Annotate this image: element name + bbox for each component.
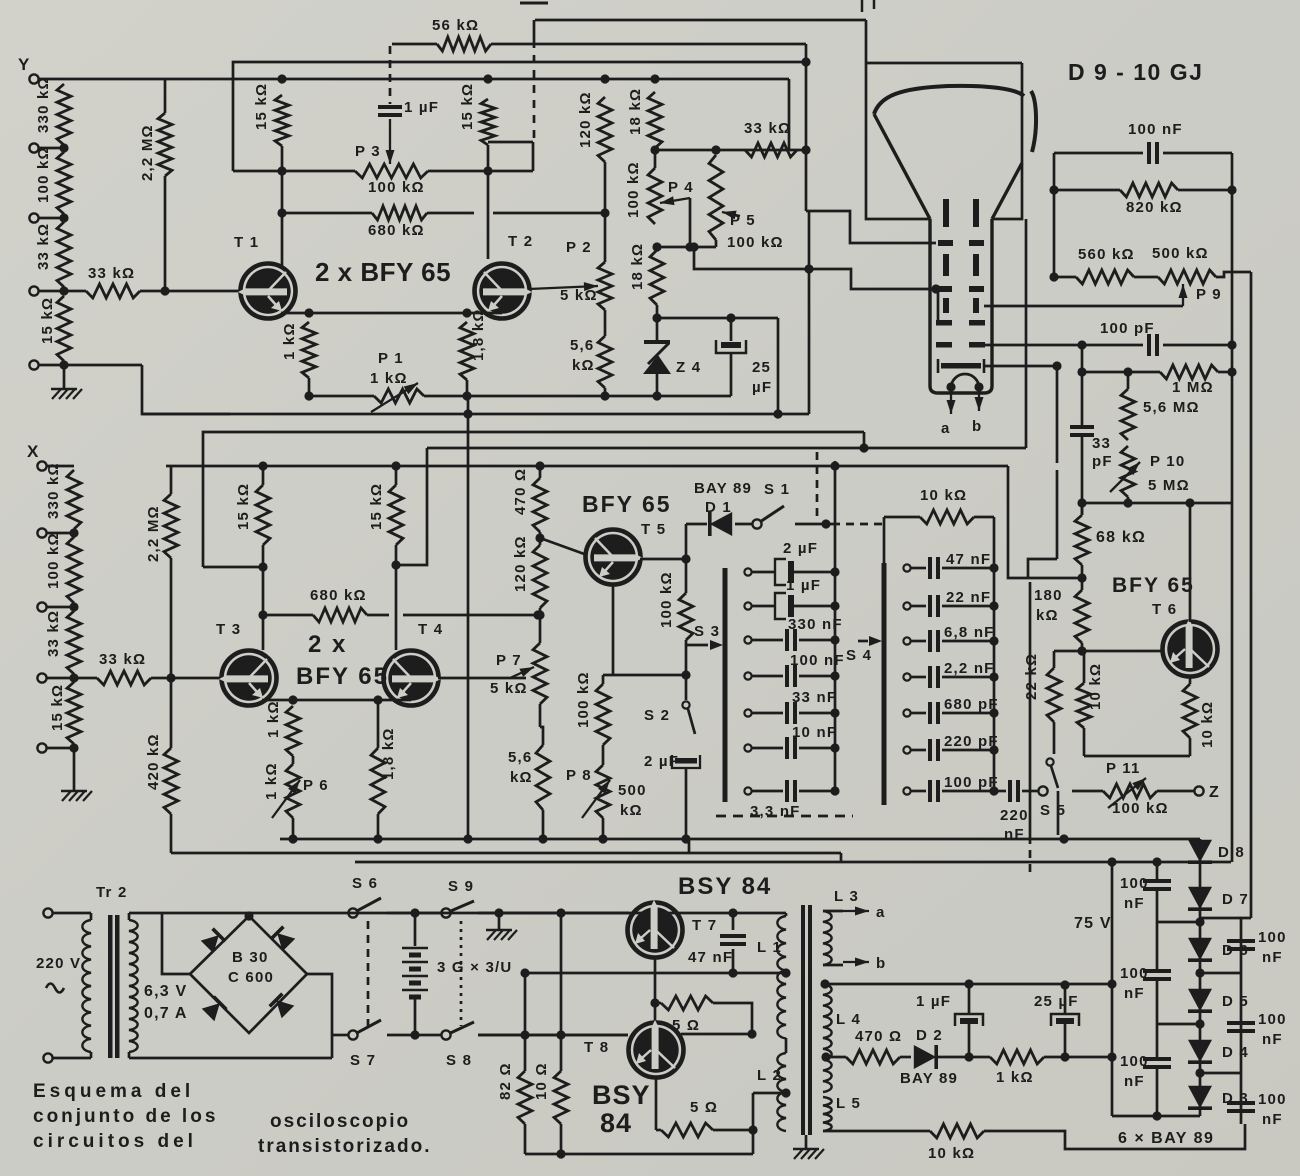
wire T6 base xyxy=(1054,650,1163,653)
wire 470 to D2 xyxy=(900,1056,911,1059)
svg-text:1 µF: 1 µF xyxy=(786,577,821,594)
potentiometer P10 5M xyxy=(1121,446,1135,497)
wire T8 base row xyxy=(478,1034,628,1037)
stub chain L2 xyxy=(1157,1023,1200,1026)
resistor 1.8k X xyxy=(377,700,380,748)
wire secondary bottom rail xyxy=(129,1057,332,1060)
switch S9 xyxy=(441,908,450,917)
potentiometer P9 500k xyxy=(1134,276,1158,279)
CRT electrode a2 left xyxy=(943,254,949,276)
bus A y414 xyxy=(142,413,809,416)
bus B y432 xyxy=(203,432,864,567)
svg-text:560 kΩ: 560 kΩ xyxy=(1078,246,1135,263)
svg-text:P 2: P 2 xyxy=(566,239,592,256)
resistor 18k lower xyxy=(650,250,664,305)
junction 82ohm y973 xyxy=(520,968,529,977)
junction 47nF top xyxy=(728,908,737,917)
wire riser x533 xyxy=(532,142,535,171)
wire L2 tap riser xyxy=(752,1093,755,1154)
bus emitter returns y839 xyxy=(280,838,689,841)
arrow P6 wiper xyxy=(272,780,300,818)
junction X div 2 xyxy=(69,602,78,611)
svg-text:D 7: D 7 xyxy=(1222,891,1249,908)
svg-text:nF: nF xyxy=(1124,985,1145,1002)
svg-text:10 kΩ: 10 kΩ xyxy=(928,1145,975,1162)
junction 470 bottom T5 base xyxy=(535,533,544,542)
svg-text:470 Ω: 470 Ω xyxy=(855,1028,902,1045)
svg-text:100: 100 xyxy=(1120,965,1149,982)
wire 33k row xyxy=(654,148,657,150)
junction X div 3 xyxy=(69,673,78,682)
junction gnd stub xyxy=(494,908,503,917)
resistor 560k xyxy=(1054,276,1076,279)
svg-text:1 kΩ: 1 kΩ xyxy=(263,762,280,800)
svg-text:2 x: 2 x xyxy=(308,631,347,658)
svg-text:P 11: P 11 xyxy=(1106,760,1141,777)
junction rail 15k4 xyxy=(391,461,400,470)
svg-text:25 µF: 25 µF xyxy=(1034,993,1079,1010)
svg-text:BSY: BSY xyxy=(592,1080,651,1110)
svg-text:56 kΩ: 56 kΩ xyxy=(432,17,479,34)
svg-text:T 7: T 7 xyxy=(692,917,717,934)
resistor 10k T6 emitter xyxy=(1189,676,1192,684)
wire secondary top to rail xyxy=(129,912,629,915)
svg-text:BAY 89: BAY 89 xyxy=(900,1070,958,1087)
stub chain R1 xyxy=(1200,972,1241,975)
wire 10k down xyxy=(1083,728,1086,756)
wire bridge left feed xyxy=(162,913,190,974)
capacitor 2uF S2 xyxy=(675,758,697,764)
wire mains bottom xyxy=(53,1057,92,1060)
svg-text:2 µF: 2 µF xyxy=(783,540,818,557)
svg-text:S 6: S 6 xyxy=(352,875,378,892)
svg-text:S 4: S 4 xyxy=(846,647,872,664)
junction 75V y1057 xyxy=(1107,1052,1116,1061)
diode D1 BAY89 xyxy=(710,512,732,536)
bus C y448 xyxy=(427,447,1026,450)
wire chain left column xyxy=(1156,862,1159,879)
capacitor 33pF xyxy=(1070,425,1094,429)
S3 contact row3 xyxy=(744,636,751,643)
resistor 2.2M X xyxy=(170,466,173,494)
junction 680kX right xyxy=(533,610,542,619)
junction T2 collector node xyxy=(483,166,492,175)
inductor L4 xyxy=(823,984,832,1092)
svg-text:22 kΩ: 22 kΩ xyxy=(1023,653,1040,700)
svg-text:D 2: D 2 xyxy=(916,1027,943,1044)
resistor 1k X emitter xyxy=(286,706,300,756)
wire S6 right xyxy=(387,912,441,915)
svg-text:D 9 - 10 GJ: D 9 - 10 GJ xyxy=(1068,59,1203,85)
selector S3 bar xyxy=(723,568,728,802)
capacitor 3.3nF xyxy=(752,790,783,793)
wire chain right column xyxy=(1241,918,1251,1124)
junction S3 row6 xyxy=(830,743,839,752)
CRT electrode a2 right xyxy=(973,254,979,276)
svg-text:Z 4: Z 4 xyxy=(676,359,701,376)
junction 68k 180k node xyxy=(1077,573,1086,582)
switch S1 xyxy=(752,519,761,528)
ground converter xyxy=(794,1149,803,1159)
wire T4 collector down xyxy=(395,565,398,650)
potentiometer P2 5k xyxy=(598,262,612,310)
stub chain R2 xyxy=(1200,1072,1241,1075)
capacitor 25uF supply xyxy=(1064,985,1067,1013)
junction x468 bus xyxy=(463,834,472,843)
svg-text:10 kΩ: 10 kΩ xyxy=(1087,663,1104,710)
junction S2 bus xyxy=(681,834,690,843)
wire dashed riser x817 xyxy=(816,452,819,518)
wire dashed T2 node to top wire xyxy=(533,20,536,40)
wire x174 from 420k xyxy=(171,852,174,855)
svg-text:33 kΩ: 33 kΩ xyxy=(99,651,146,668)
switch S5 xyxy=(1046,758,1053,765)
svg-text:1 kΩ: 1 kΩ xyxy=(996,1069,1034,1086)
junction y345 x1082 xyxy=(1077,340,1086,349)
wire X stub 4 xyxy=(47,677,75,680)
svg-text:500: 500 xyxy=(618,782,647,799)
CRT electrode g5 right xyxy=(969,342,985,348)
wire T7 emitter xyxy=(654,957,657,1022)
wire divider bottom down xyxy=(63,365,66,388)
junction T4 collector xyxy=(391,560,400,569)
wire 1k right xyxy=(1044,1056,1112,1059)
junction w2 crossing xyxy=(804,264,813,273)
arrow P5 wiper xyxy=(722,212,740,216)
wire T6 emitter bottom xyxy=(1189,738,1192,756)
svg-text:D 1: D 1 xyxy=(705,499,732,516)
svg-text:Tr 2: Tr 2 xyxy=(96,884,127,901)
junction chain left col bottom xyxy=(1152,1111,1161,1120)
svg-text:6,8 nF: 6,8 nF xyxy=(944,624,995,641)
svg-text:820 kΩ: 820 kΩ xyxy=(1126,199,1183,216)
CRT electrode a3 left xyxy=(937,286,952,292)
svg-text:18 kΩ: 18 kΩ xyxy=(629,243,646,290)
junction 15k2 top xyxy=(483,74,492,83)
wire S1 fixed contact xyxy=(795,523,832,526)
wire row to right vertical xyxy=(1190,502,1231,505)
resistor 33k Y series input xyxy=(68,290,86,293)
wire 15k2 link xyxy=(488,141,533,144)
svg-text:D 4: D 4 xyxy=(1222,1044,1249,1061)
svg-text:P 1: P 1 xyxy=(378,350,404,367)
svg-text:680 kΩ: 680 kΩ xyxy=(310,587,367,604)
svg-text:10 Ω: 10 Ω xyxy=(533,1062,550,1100)
wire D1 to S1 xyxy=(735,523,752,526)
terminal Y tap 3 xyxy=(29,213,38,222)
junction plate a3 xyxy=(931,284,940,293)
resistor 10k T5 side xyxy=(1083,651,1086,683)
junction 100k bottom node xyxy=(681,670,690,679)
wire 1.8k bottom xyxy=(466,380,469,396)
CRT enclosure box xyxy=(866,20,930,219)
junction 18k2 top xyxy=(652,242,661,251)
junction T3 collector box xyxy=(258,562,267,571)
potentiometer P7 5k xyxy=(533,643,547,704)
svg-text:33 kΩ: 33 kΩ xyxy=(88,265,135,282)
wire D2 row xyxy=(823,1056,846,1059)
capacitor 100nF bank xyxy=(752,675,783,678)
ground Y divider xyxy=(52,389,61,399)
junction bridge top rail xyxy=(244,911,253,920)
svg-text:T 5: T 5 xyxy=(641,521,666,538)
capacitor 47nF bank xyxy=(911,567,926,570)
svg-text:1 MΩ: 1 MΩ xyxy=(1172,379,1214,396)
CRT deflection plate right xyxy=(973,298,979,313)
svg-text:84: 84 xyxy=(600,1108,632,1138)
transformer secondary coil xyxy=(128,913,131,920)
wire X stub 3 xyxy=(47,606,75,609)
wire T5 emitter down xyxy=(612,584,615,675)
CRT box right xyxy=(992,63,1022,219)
svg-text:5 MΩ: 5 MΩ xyxy=(1148,477,1190,494)
switch S8 xyxy=(441,1030,450,1039)
arrow S4 wiper xyxy=(858,640,868,643)
wire T1 collector xyxy=(281,171,284,268)
capacitor 100nF chain L1 xyxy=(1143,879,1171,883)
junction 68k top xyxy=(1077,498,1086,507)
junction 82ohm base xyxy=(520,1030,529,1039)
junction box busA xyxy=(773,409,782,418)
svg-text:1 kΩ: 1 kΩ xyxy=(281,322,298,360)
resistor 33k X divider xyxy=(67,611,81,674)
resistor 330k Y divider xyxy=(57,84,71,145)
wire CRT anode right y366 xyxy=(984,365,1057,368)
svg-text:BAY 89: BAY 89 xyxy=(694,480,752,497)
inductor L5 xyxy=(823,1097,832,1131)
junction 1M right xyxy=(1227,367,1236,376)
junction 5ohm L4 xyxy=(747,1029,756,1038)
wire 10k bottom right xyxy=(984,1124,1245,1149)
wire X divider to ground xyxy=(73,748,76,790)
wire CRT plate right y345 xyxy=(984,344,1082,347)
terminal X tap3 xyxy=(37,602,46,611)
junction 1k top xyxy=(304,308,313,317)
junction right 820k xyxy=(1227,185,1236,194)
transformer core xyxy=(108,915,113,1058)
selector S4 bar xyxy=(882,563,887,805)
wire 100k to P8 xyxy=(602,745,605,765)
wire T4 collector to busC xyxy=(396,448,427,565)
resistor 33k X series xyxy=(78,677,97,680)
svg-text:S 1: S 1 xyxy=(764,481,790,498)
svg-text:L 1: L 1 xyxy=(757,939,782,956)
resistor 5.6k Y xyxy=(598,336,612,388)
svg-text:nF: nF xyxy=(1262,1031,1283,1048)
svg-text:5,6: 5,6 xyxy=(570,337,594,354)
CRT deflection plate left xyxy=(943,298,949,313)
junction 1uF bottom xyxy=(964,1052,973,1061)
wire tap2 stub xyxy=(39,147,65,150)
wire P4 wiper to node B xyxy=(689,198,692,247)
svg-text:b: b xyxy=(972,418,982,435)
arrow CRT heater a xyxy=(950,387,952,414)
junction filament b xyxy=(974,382,983,391)
potentiometer P11 100k xyxy=(1072,790,1103,793)
terminal Y bottom xyxy=(29,360,38,369)
svg-text:a: a xyxy=(876,904,886,921)
svg-text:S 7: S 7 xyxy=(350,1052,376,1069)
potentiometer P3 100k xyxy=(355,164,428,178)
junction P6 bus xyxy=(288,834,297,843)
junction 5ohm T8 x753 xyxy=(748,1125,757,1134)
wire 75V vertical xyxy=(1111,862,1114,1116)
svg-text:Z: Z xyxy=(1209,784,1220,801)
svg-text:47 nF: 47 nF xyxy=(688,949,733,966)
wire P9 right jog xyxy=(1216,272,1251,277)
wire L2 tap xyxy=(753,1092,786,1095)
arrow P9 wiper xyxy=(1182,284,1184,306)
svg-text:33 kΩ: 33 kΩ xyxy=(744,120,791,137)
svg-text:100 pF: 100 pF xyxy=(1100,320,1155,337)
svg-text:X: X xyxy=(27,442,40,461)
CRT electrode a1 left xyxy=(938,240,953,246)
svg-text:5,6: 5,6 xyxy=(508,749,532,766)
junction S3 row7 xyxy=(830,786,839,795)
svg-text:5 Ω: 5 Ω xyxy=(690,1099,718,1116)
wire 33k to T1 base xyxy=(140,290,241,293)
svg-text:T 2: T 2 xyxy=(508,233,533,250)
junction S3 row4 xyxy=(830,671,839,680)
wire right vertical top net xyxy=(1231,153,1234,190)
wire P11 to Z xyxy=(1157,790,1194,793)
svg-text:15 kΩ: 15 kΩ xyxy=(253,83,270,130)
wire CRT box right down to busC xyxy=(1025,219,1028,448)
svg-text:15 kΩ: 15 kΩ xyxy=(459,83,476,130)
resistor 1M xyxy=(1082,371,1160,374)
svg-text:pF: pF xyxy=(1092,453,1113,470)
svg-text:10 kΩ: 10 kΩ xyxy=(920,487,967,504)
diode D6 xyxy=(1188,938,1212,960)
wire X emitter row xyxy=(262,699,411,702)
capacitor 22nF xyxy=(911,605,926,608)
wire emitter row T1-T2 xyxy=(281,312,502,315)
svg-text:330 kΩ: 330 kΩ xyxy=(45,462,62,519)
junction 100pF right xyxy=(1227,340,1236,349)
junction S3 row2 xyxy=(830,601,839,610)
wire 68k top row xyxy=(1082,502,1190,505)
S3 contact row7 xyxy=(744,787,751,794)
capacitor 100nF chain R1 xyxy=(1227,939,1255,943)
svg-text:500 kΩ: 500 kΩ xyxy=(1152,245,1209,262)
transformer core converter xyxy=(801,905,805,1135)
wire x806 main vertical xyxy=(805,44,808,211)
svg-text:470 Ω: 470 Ω xyxy=(512,468,529,515)
wire bottom stub xyxy=(39,364,65,367)
arrow P2 wiper from T2 xyxy=(529,286,598,289)
terminal Y tap 2 xyxy=(29,143,38,152)
junction 560k left xyxy=(1049,272,1058,281)
wire chain bottom row xyxy=(1112,1115,1200,1118)
junction S4 row4 xyxy=(989,672,998,681)
wire 10ohm top xyxy=(560,913,563,1071)
svg-text:100 kΩ: 100 kΩ xyxy=(625,161,642,218)
junction 75V y984 xyxy=(1107,979,1116,988)
transistor T4 BFY65 xyxy=(384,651,442,706)
svg-text:S 5: S 5 xyxy=(1040,802,1066,819)
capacitor 10nF xyxy=(752,747,783,750)
junction 75V bus xyxy=(1107,857,1116,866)
svg-text:kΩ: kΩ xyxy=(510,769,533,786)
junction S4 row1 xyxy=(989,563,998,572)
wire T8 emitter xyxy=(655,1078,658,1130)
page artifact top 2 xyxy=(861,0,864,12)
svg-text:b: b xyxy=(876,955,886,972)
CRT electrode g1 left xyxy=(943,199,949,227)
junction X base node xyxy=(166,673,175,682)
wire chain L col mid2 xyxy=(1156,981,1159,1057)
svg-text:33 kΩ: 33 kΩ xyxy=(35,223,52,270)
svg-text:120 kΩ: 120 kΩ xyxy=(512,535,529,592)
svg-text:100 kΩ: 100 kΩ xyxy=(368,179,425,196)
junction 25uF top xyxy=(1060,980,1069,989)
junction S3 row3 xyxy=(830,635,839,644)
diode D3 xyxy=(1188,1086,1212,1108)
resistor 1k Y emitter xyxy=(302,322,316,378)
svg-text:kΩ: kΩ xyxy=(620,802,643,819)
capacitor 1uF bank xyxy=(752,605,775,608)
svg-text:100 kΩ: 100 kΩ xyxy=(35,146,52,203)
wire chain diode column xyxy=(1199,839,1202,1116)
wire T5 output right xyxy=(640,558,686,561)
junction divider 3 xyxy=(59,286,68,295)
svg-text:100 kΩ: 100 kΩ xyxy=(658,571,675,628)
bridge B30 C600 diamond xyxy=(190,916,307,1033)
junction left 820k xyxy=(1049,185,1058,194)
svg-text:P 10: P 10 xyxy=(1150,453,1185,470)
dashed frame S3 xyxy=(716,815,853,818)
svg-text:33 nF: 33 nF xyxy=(792,689,837,706)
junction 5.6M top xyxy=(1123,367,1132,376)
svg-text:P 8: P 8 xyxy=(566,767,592,784)
svg-text:2,2 MΩ: 2,2 MΩ xyxy=(139,124,156,181)
junction chain bus xyxy=(1152,857,1161,866)
arrow S3 wiper xyxy=(686,644,708,647)
junction S3 row5 xyxy=(830,708,839,717)
resistor 820k xyxy=(1054,189,1120,192)
potentiometer P5 100k xyxy=(709,155,723,240)
svg-text:220: 220 xyxy=(1000,807,1029,824)
terminal Y top xyxy=(29,74,38,83)
svg-text:nF: nF xyxy=(1124,895,1145,912)
wire 180k bottom to base node xyxy=(1081,643,1084,651)
svg-text:P 3: P 3 xyxy=(355,143,381,160)
switch S7 xyxy=(348,1030,357,1039)
capacitor 25uF xyxy=(730,318,733,341)
svg-text:1,8 kΩ: 1,8 kΩ xyxy=(470,308,487,361)
CRT electrode a3 right xyxy=(969,286,984,292)
wire P8 bottom xyxy=(602,818,605,839)
wire T6 collector xyxy=(1189,503,1192,622)
junction P10 row xyxy=(1123,498,1132,507)
junction X div 1 xyxy=(69,528,78,537)
svg-text:nF: nF xyxy=(1262,1111,1283,1128)
CRT final anode xyxy=(941,363,981,369)
wire dashed 56k to 1uF xyxy=(389,46,392,104)
wire anode jog to 68k node xyxy=(1028,559,1057,578)
junction S4 row2 xyxy=(989,601,998,610)
svg-text:25: 25 xyxy=(752,359,771,376)
wire S9 right xyxy=(478,912,629,915)
wire 120k to P7 xyxy=(539,608,542,643)
CRT neck xyxy=(928,219,931,386)
wire 100nF left vertical xyxy=(1053,153,1056,277)
junction P8 bus xyxy=(598,834,607,843)
junction y366 x1057 xyxy=(1052,361,1061,370)
diode D8 xyxy=(1188,840,1212,862)
svg-text:a: a xyxy=(941,420,951,437)
terminal X tap2 xyxy=(37,528,46,537)
